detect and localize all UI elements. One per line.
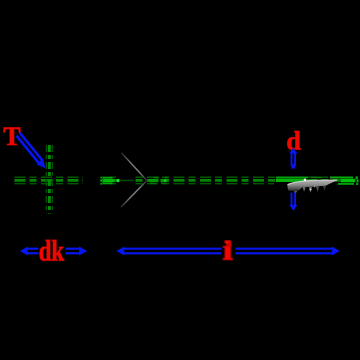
svg-text:dk: dk [39,234,65,268]
